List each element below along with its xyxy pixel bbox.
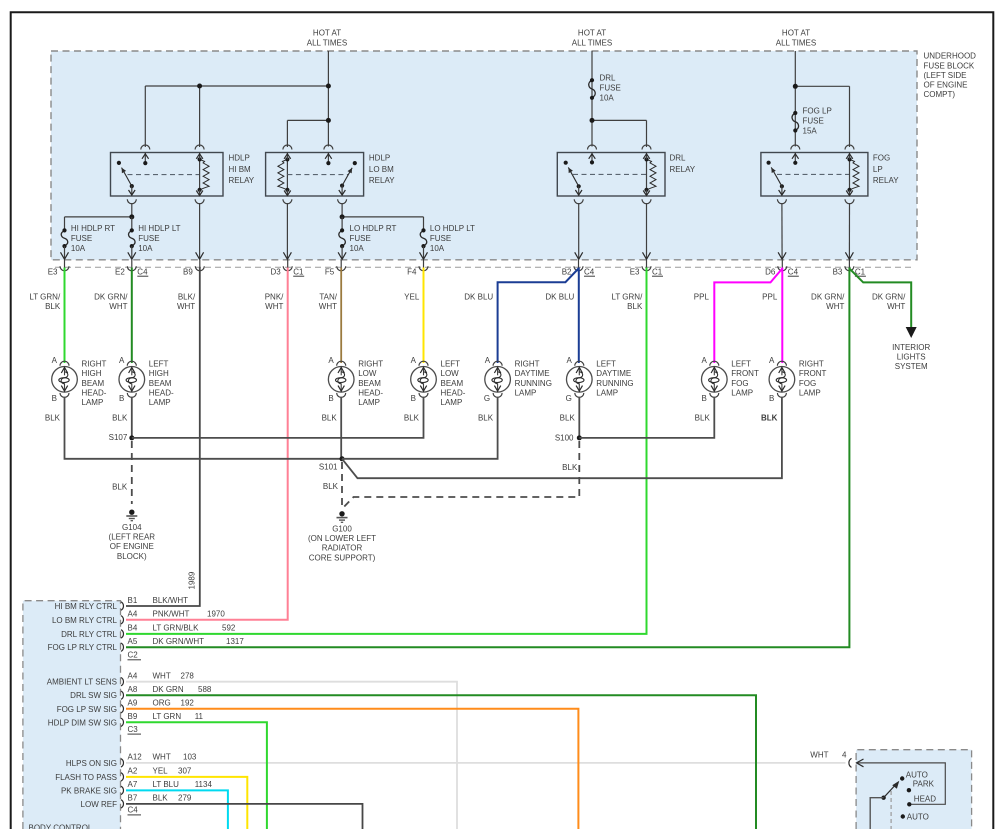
svg-text:FUSE: FUSE [430,234,451,243]
svg-text:F4: F4 [407,267,417,276]
svg-text:BLK: BLK [761,414,778,423]
wire B+ feed vertical to DRL relay [591,51,593,147]
wire fog relay coil to B3 [848,203,850,259]
wire relay2 coil to D3 [286,203,288,259]
svg-text:A: A [328,356,334,365]
lamp right high beam headlamp [45,356,107,423]
svg-text:B: B [411,394,416,403]
headlamp switch arm [881,796,885,800]
svg-text:BLK: BLK [45,302,61,311]
switch mechanical link dashed [890,791,892,829]
svg-text:DAYTIME: DAYTIME [515,369,550,378]
lamp left front fog lamp [695,356,759,423]
connector plane dashed line [55,266,915,268]
headlamp switch feed bus [857,763,946,804]
svg-text:588: 588 [198,685,212,694]
wire BLK/WHT circuit 1989 to BCM B1 [126,268,200,607]
ground G104 [129,510,134,515]
svg-text:WHT: WHT [810,751,828,760]
connector E3 [48,260,69,277]
svg-text:HI BM RLY CTRL: HI BM RLY CTRL [55,602,118,611]
svg-text:BEAM: BEAM [149,379,172,388]
lamp left high beam headlamp [112,356,174,423]
svg-text:FOG: FOG [873,154,890,163]
wire left daytime lamp ground [578,397,580,438]
switch contact AUTO [900,776,904,780]
svg-text:BODY CONTROL: BODY CONTROL [29,823,93,829]
svg-text:WHT: WHT [826,302,844,311]
svg-text:LT BLU: LT BLU [153,780,180,789]
svg-text:DK GRN/WHT: DK GRN/WHT [153,637,205,646]
svg-text:LEFT: LEFT [149,360,169,369]
svg-text:103: 103 [183,753,197,762]
svg-text:SYSTEM: SYSTEM [895,362,928,371]
svg-text:FUSE: FUSE [350,234,371,243]
svg-text:B3: B3 [833,267,843,276]
svg-text:B: B [119,394,124,403]
svg-text:INTERIOR: INTERIOR [892,343,930,352]
svg-text:WHT: WHT [109,302,127,311]
svg-text:S107: S107 [109,433,128,442]
connector E3/C1 [630,260,663,277]
svg-text:A9: A9 [128,699,138,708]
svg-text:LO BM: LO BM [369,165,394,174]
svg-text:A4: A4 [128,610,138,619]
svg-text:A8: A8 [128,685,138,694]
svg-text:A: A [769,356,775,365]
BCM pin A7 PK BRAKE SIG [61,780,212,795]
svg-text:PPL: PPL [762,292,778,301]
connector D3/C1 [270,260,304,277]
lamp left daytime running lamp [560,356,634,423]
svg-text:C3: C3 [128,725,139,734]
svg-text:BLOCK): BLOCK) [117,552,147,561]
svg-text:RUNNING: RUNNING [515,379,552,388]
svg-text:HI BM: HI BM [229,165,252,174]
svg-text:ALL TIMES: ALL TIMES [307,38,347,47]
svg-text:B9: B9 [183,267,193,276]
wire relay1 switch to fuses [131,203,133,217]
svg-text:1989: 1989 [187,571,196,589]
svg-text:LEFT: LEFT [441,360,461,369]
BCM pin A4 LO BM RLY CTRL [52,610,225,625]
svg-text:A5: A5 [128,637,138,646]
svg-text:BLK: BLK [45,414,61,423]
svg-text:FLASH TO PASS: FLASH TO PASS [55,773,117,782]
relay HDLP HI BM RELAY [111,145,255,204]
wire relay1 coil to B9 [199,203,201,259]
svg-text:DRL RLY CTRL: DRL RLY CTRL [61,630,117,639]
wire DK GRN/WHT to BCM A5 [126,268,849,648]
wire right low beam ground [340,397,342,459]
svg-text:S101: S101 [319,463,338,472]
BCM pin A5 FOG LP RLY CTRL [48,637,245,652]
svg-text:B2: B2 [562,267,572,276]
svg-text:BLK: BLK [478,414,494,423]
wire B+ feed vertical to HDLP relays [327,51,329,147]
svg-text:BEAM: BEAM [82,379,105,388]
wire right daytime lamp ground [342,397,498,459]
wire DRL relay switch to B2 [578,203,580,259]
svg-text:AUTO: AUTO [906,770,928,779]
svg-text:ALL TIMES: ALL TIMES [572,38,612,47]
svg-text:B7: B7 [128,794,138,803]
relay FOG LP RELAY [761,145,899,204]
svg-text:C4: C4 [788,267,799,276]
svg-text:HOT AT: HOT AT [313,28,341,37]
svg-text:BLK: BLK [404,414,420,423]
svg-text:LAMP: LAMP [596,388,618,397]
svg-text:DK BLU: DK BLU [464,292,493,301]
svg-text:WHT: WHT [153,672,171,681]
svg-text:HEAD-: HEAD- [358,388,383,397]
svg-text:FRONT: FRONT [799,369,827,378]
svg-text:RIGHT: RIGHT [82,360,107,369]
svg-text:WHT: WHT [319,302,337,311]
svg-text:PNK/WHT: PNK/WHT [153,610,190,619]
splice S107 [129,435,134,440]
svg-text:FUSE: FUSE [138,234,159,243]
svg-text:LOW: LOW [441,369,460,378]
body control module box [23,601,121,829]
svg-text:592: 592 [222,624,236,633]
svg-text:(ON LOWER LEFT: (ON LOWER LEFT [308,534,376,543]
svg-text:A2: A2 [128,767,138,776]
svg-text:BLK: BLK [627,302,643,311]
wire LT GRN 11 headlamp dimmer switch signal [126,722,267,829]
svg-text:G: G [566,394,572,403]
wire WHT 103 headlamps-on signal [126,762,846,764]
wire WHT 278 ambient light sensor [126,682,457,829]
svg-text:FOG LP: FOG LP [803,107,832,116]
svg-text:YEL: YEL [404,292,420,301]
connector E2/C4 [115,260,148,277]
BCM pin A2 FLASH TO PASS [55,767,192,782]
svg-text:B1: B1 [128,596,138,605]
svg-text:1970: 1970 [207,610,225,619]
wire PPL to right front fog lamp [781,268,783,364]
svg-text:FUSE: FUSE [600,84,621,93]
svg-text:LAMP: LAMP [82,398,104,407]
svg-text:LT GRN/: LT GRN/ [29,292,61,301]
svg-text:11: 11 [195,712,204,721]
connector F5 [325,260,346,277]
svg-text:G: G [484,394,490,403]
svg-text:A4: A4 [128,672,138,681]
wire relay2 switch to fuses [341,203,343,217]
wire TAN/WHT to right low beam [340,268,342,364]
wire PPL to left front fog lamp [714,269,782,364]
junction node FOG feed [793,84,798,89]
connector B3/C1 [833,260,866,277]
splice S100 [577,435,582,440]
svg-text:FUSE BLOCK: FUSE BLOCK [924,61,975,70]
svg-text:HI HDLP LT: HI HDLP LT [138,224,180,233]
wire LT GRN/BLK to right high beam [64,268,66,364]
svg-text:307: 307 [178,767,192,776]
svg-text:BLK: BLK [695,414,711,423]
svg-text:A: A [701,356,707,365]
svg-text:BLK/: BLK/ [178,292,196,301]
relay HDLP LO BM RELAY [266,145,396,204]
svg-text:FOG: FOG [799,379,816,388]
switch contact AUTO lower [901,814,905,818]
svg-text:LAMP: LAMP [441,398,463,407]
svg-text:LAMP: LAMP [731,388,753,397]
svg-text:BEAM: BEAM [358,379,381,388]
wire left high beam ground [131,397,133,438]
svg-text:A: A [485,356,491,365]
svg-text:RELAY: RELAY [873,176,899,185]
svg-text:278: 278 [181,672,195,681]
headlamp switch common wire [870,798,883,829]
wire right high beam ground [65,397,343,459]
lamp right front fog lamp [761,356,827,423]
svg-text:DK GRN/: DK GRN/ [94,292,128,301]
svg-text:A: A [119,356,125,365]
svg-text:G104: G104 [122,523,142,532]
wire feed branch to DRL relay coil [592,119,647,121]
svg-text:UNDERHOOD: UNDERHOOD [924,52,977,61]
svg-text:B4: B4 [128,624,138,633]
underhood fuse block box [51,51,917,260]
svg-text:B: B [328,394,333,403]
svg-text:DK BLU: DK BLU [545,292,574,301]
svg-text:DK GRN/: DK GRN/ [811,292,845,301]
BCM pin A4 AMBIENT LT SENS [47,672,195,687]
svg-text:OF ENGINE: OF ENGINE [924,81,968,90]
wire PNK/WHT to BCM A4 [126,268,288,620]
svg-text:(LEFT REAR: (LEFT REAR [109,533,156,542]
fuse HI HDLP LT FUSE 10A [131,217,133,231]
svg-text:D6: D6 [765,267,776,276]
svg-text:LT GRN/: LT GRN/ [611,292,643,301]
wire feed branch to FOG LP relay coil [795,85,849,87]
svg-text:E3: E3 [48,267,58,276]
svg-text:DK GRN: DK GRN [153,685,184,694]
splice S101 [340,456,345,461]
svg-text:CORE SUPPORT): CORE SUPPORT) [309,553,376,562]
connector B2/C4 [562,260,595,277]
BCM pin A8 DRL SW SIG [70,685,212,700]
svg-text:A: A [52,356,58,365]
connector D6/C4 [765,260,799,277]
svg-text:RELAY: RELAY [670,165,696,174]
junction node feed 2 [326,84,331,89]
fuse HI HDLP RT FUSE 10A [61,230,68,246]
wire S101 to right front fog lamp ground [342,397,782,478]
wire feed branch to LO BM relay coil [287,119,328,121]
svg-text:OF ENGINE: OF ENGINE [110,542,154,551]
svg-text:192: 192 [181,699,195,708]
svg-text:DAYTIME: DAYTIME [596,369,631,378]
fuse LO HDLP LT FUSE 10A [423,217,425,231]
svg-text:YEL: YEL [153,767,169,776]
svg-text:ALL TIMES: ALL TIMES [776,38,816,47]
svg-text:15A: 15A [803,127,818,136]
svg-text:HI HDLP RT: HI HDLP RT [71,224,115,233]
svg-text:RELAY: RELAY [229,176,255,185]
BCM pin B1 HI BM RLY CTRL [55,596,189,611]
svg-text:HEAD: HEAD [914,794,936,803]
svg-text:HEAD-: HEAD- [441,388,466,397]
switch contact PARK [907,788,911,792]
svg-text:HEAD-: HEAD- [82,388,107,397]
svg-text:BLK: BLK [153,794,169,803]
svg-text:DRL: DRL [600,74,617,83]
lamp right low beam headlamp [322,356,384,423]
svg-text:F5: F5 [325,267,335,276]
dashed BLK wire S101 to G100 [341,462,343,506]
connector F4 [407,260,428,277]
svg-text:279: 279 [178,794,192,803]
dashed BLK wire S100 to G100 [343,441,579,508]
wire DK BLU to left daytime lamp [578,268,580,364]
svg-text:LP: LP [873,165,883,174]
svg-text:C4: C4 [128,806,139,815]
wire feed branch to HI BM relay coil [199,86,201,147]
fuse LO HDLP RT FUSE 10A [339,230,346,246]
svg-text:DK GRN/: DK GRN/ [872,292,906,301]
svg-text:BLK: BLK [560,414,576,423]
svg-text:RELAY: RELAY [369,176,395,185]
svg-text:A12: A12 [128,753,143,762]
lamp left low beam headlamp [404,356,466,423]
BCM pin B4 DRL RLY CTRL [61,624,236,639]
BCM pin A12 HLPS ON SIG [66,753,197,768]
svg-text:G100: G100 [332,525,352,534]
svg-text:AMBIENT LT SENS: AMBIENT LT SENS [47,678,117,687]
svg-text:COMPT): COMPT) [924,90,956,99]
svg-text:LO HDLP LT: LO HDLP LT [430,224,475,233]
svg-text:LEFT: LEFT [731,360,751,369]
svg-text:LAMP: LAMP [358,398,380,407]
svg-text:RIGHT: RIGHT [358,360,383,369]
svg-text:PPL: PPL [694,292,710,301]
wire LT GRN/BLK to BCM B4 [126,268,647,634]
svg-text:HOT AT: HOT AT [782,28,810,37]
wire DK GRN/WHT to interior lights system [849,269,911,328]
svg-text:10A: 10A [71,244,86,253]
connector bracket pin K [849,758,852,767]
svg-text:BLK/WHT: BLK/WHT [153,596,189,605]
wire feed branch to HI BM relay [145,85,328,87]
wire LT BLU 1134 park brake signal [126,790,228,829]
svg-text:PARK: PARK [913,779,935,788]
svg-text:HIGH: HIGH [149,369,169,378]
wire ORG 192 fog lamp switch signal [126,709,578,829]
svg-text:10A: 10A [600,94,615,103]
svg-text:LAMP: LAMP [149,398,171,407]
connector B9 [183,260,204,277]
svg-text:HIGH: HIGH [82,369,102,378]
svg-text:HOT AT: HOT AT [578,28,606,37]
wire YEL to left low beam [423,268,425,364]
svg-text:LO HDLP RT: LO HDLP RT [350,224,397,233]
wire S100 to left front fog lamp [579,397,714,438]
wire DK GRN 588 drl switch signal [126,695,756,829]
svg-text:AUTO: AUTO [907,812,929,821]
BCM pin B7 LOW REF [81,794,192,809]
svg-text:B9: B9 [128,712,138,721]
arrow to interior lights system [906,327,917,338]
svg-text:FUSE: FUSE [803,117,824,126]
svg-text:A: A [411,356,417,365]
svg-text:LT GRN: LT GRN [153,712,182,721]
svg-text:HDLP: HDLP [369,154,390,163]
svg-text:WHT: WHT [153,753,171,762]
svg-text:BLK: BLK [112,483,128,492]
svg-text:LOW REF: LOW REF [81,800,118,809]
fuse DRL FUSE 10A [589,80,596,98]
svg-text:PK BRAKE SIG: PK BRAKE SIG [61,786,117,795]
svg-text:1317: 1317 [226,637,244,646]
svg-text:4: 4 [842,751,847,760]
svg-text:A7: A7 [128,780,138,789]
svg-text:FUSE: FUSE [71,234,92,243]
svg-text:HDLP: HDLP [229,154,250,163]
wire YEL 307 flash to pass [126,777,247,829]
junction node DRL feed [590,118,595,123]
svg-text:S100: S100 [555,433,574,442]
lamp right daytime running lamp [478,356,552,423]
BCM pin A9 FOG LP SW SIG [57,699,195,714]
svg-text:BEAM: BEAM [441,379,464,388]
svg-text:LAMP: LAMP [515,388,537,397]
svg-text:C1: C1 [293,267,304,276]
svg-text:HDLP DIM SW SIG: HDLP DIM SW SIG [48,718,117,727]
wire B+ feed vertical to FOG LP relay [794,51,796,147]
svg-text:B: B [701,394,706,403]
svg-text:FOG LP RLY CTRL: FOG LP RLY CTRL [48,643,118,652]
svg-text:A: A [566,356,572,365]
svg-text:LO BM RLY CTRL: LO BM RLY CTRL [52,616,118,625]
svg-text:LAMP: LAMP [799,388,821,397]
dashed BLK wire S107 to G104 [131,441,133,504]
svg-text:1134: 1134 [195,780,213,789]
wire DK BLU to right daytime lamp [498,269,579,364]
junction node feed 1 [197,84,202,89]
svg-text:HLPS ON SIG: HLPS ON SIG [66,759,117,768]
svg-text:C1: C1 [652,267,663,276]
svg-text:RIGHT: RIGHT [799,360,824,369]
switch contact HEAD [907,802,911,806]
svg-text:10A: 10A [350,244,365,253]
svg-text:D3: D3 [270,267,281,276]
wire DRL relay coil to E3 [646,203,648,259]
svg-text:WHT: WHT [887,302,905,311]
svg-text:B: B [52,394,57,403]
svg-text:LOW: LOW [358,369,377,378]
svg-text:FOG: FOG [731,379,748,388]
svg-text:DRL: DRL [670,154,687,163]
svg-text:E2: E2 [115,267,125,276]
svg-text:E3: E3 [630,267,640,276]
wire S107 to left low beam [132,397,424,438]
svg-text:LEFT: LEFT [596,360,616,369]
BCM pin B9 HDLP DIM SW SIG [48,712,204,727]
svg-text:(LEFT SIDE: (LEFT SIDE [924,71,967,80]
svg-text:HEAD-: HEAD- [149,388,174,397]
svg-text:C4: C4 [137,267,148,276]
svg-text:RUNNING: RUNNING [596,379,633,388]
svg-text:WHT: WHT [177,302,195,311]
svg-text:C4: C4 [584,267,595,276]
relay DRL RELAY [557,145,696,204]
svg-text:FRONT: FRONT [731,369,759,378]
svg-text:10A: 10A [430,244,445,253]
svg-text:10A: 10A [138,244,153,253]
